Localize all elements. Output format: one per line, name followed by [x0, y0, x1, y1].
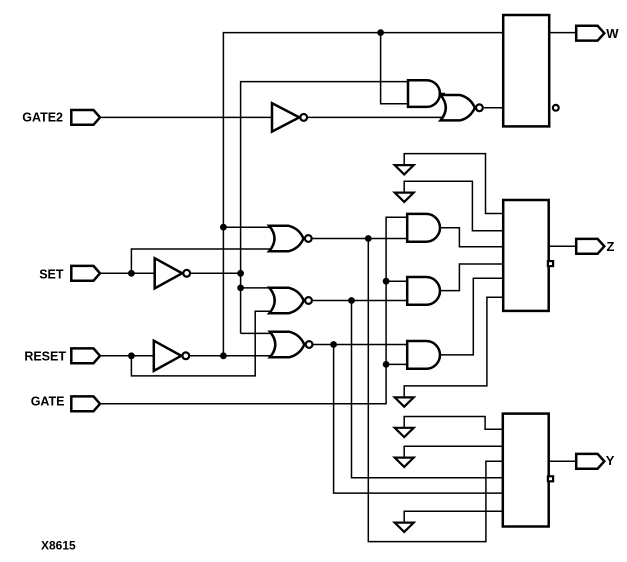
wire: AND-W output to NOR-W	[440, 93, 445, 95]
wire: GATE input run and vertical to AND-Z1 input 1	[100, 217, 409, 404]
wire: NOR3 upper input from vertical B	[241, 332, 272, 334]
bubble of U-SET	[183, 270, 190, 277]
nor gate NOR2	[269, 288, 303, 313]
polarity square on latch Y	[548, 476, 553, 481]
junction RESET_inv at vertical A	[220, 352, 227, 359]
wire: latch W output to pin W	[550, 32, 578, 34]
input pin GATE	[71, 396, 100, 411]
ground triangle T3	[395, 397, 414, 406]
polarity square on latch Z	[548, 261, 553, 266]
wire: latch Z input 6 to triangle T3 net	[404, 297, 503, 398]
and gate AND-Z2	[407, 277, 440, 305]
latch block Y	[503, 414, 549, 527]
bubble of NOR-W	[476, 104, 483, 111]
wire: RESET branch down and to NOR2 lower input	[131, 311, 272, 376]
junction on top wire	[377, 29, 384, 36]
junction SET_inv at vertical B	[237, 270, 244, 277]
inverter U-RESET	[154, 341, 181, 371]
wire: NOR1 upper input branch from vertical A	[223, 226, 271, 228]
junction SET branch	[128, 270, 135, 277]
svg-text:SET: SET	[39, 267, 64, 281]
ground triangle T2	[395, 193, 414, 202]
junction GATE to AND-Z3	[383, 361, 390, 368]
inverter U-GATE2	[272, 103, 299, 131]
wire: NOR2 output to AND-Z2 input 2	[312, 300, 409, 302]
wire: RESET input to inverter	[100, 355, 155, 357]
wire: top wire branch down to AND-W input 2	[381, 33, 409, 104]
and gate AND-W	[408, 80, 440, 107]
input pin RESET	[71, 348, 100, 363]
wire: SET branch up to NOR1 lower input	[131, 249, 271, 273]
bubble of U-GATE2	[300, 114, 307, 121]
ground triangle T5	[395, 458, 414, 467]
svg-text:W: W	[606, 26, 619, 41]
svg-text:GATE: GATE	[31, 395, 65, 409]
wire: AND-Z3 output to latch Z input 5	[440, 278, 504, 355]
wire: NOR1 output to AND-Z1 input 2	[312, 238, 409, 240]
junction GATE to AND-Z2	[383, 278, 390, 285]
ground triangle T6	[395, 523, 414, 532]
wire: triangle T4 net to latch Y input 1	[404, 417, 503, 430]
input pin SET	[71, 266, 100, 281]
wire: latch Z output to pin Z	[549, 245, 577, 247]
wire: NOR3 output to AND-Z3 input 1	[312, 344, 409, 346]
wire: GATE2 input to inverter	[100, 116, 273, 118]
bubble of NOR3	[306, 341, 313, 348]
nor gate NOR-W	[441, 95, 475, 120]
svg-text:Y: Y	[606, 453, 615, 468]
bubble of NOR1	[305, 235, 312, 242]
latch block W	[503, 15, 549, 126]
wire: AND-Z1 output to latch Z input 3	[440, 228, 504, 247]
nor gate NOR1	[269, 226, 303, 251]
inverter U-SET	[155, 258, 182, 288]
output pin Z	[576, 239, 604, 254]
output pin Y	[576, 454, 604, 469]
wire: GATE branch to AND-Z2 input 1	[386, 280, 409, 282]
wire: GATE branch to AND-Z3 input 2	[386, 363, 409, 365]
latch block Z	[503, 200, 549, 311]
svg-text:Z: Z	[607, 239, 615, 254]
wire: RESET_inv output to NOR3 lower input	[190, 355, 272, 357]
wire: triangle T5 net to latch Y input 2	[404, 446, 503, 458]
wire: latch Y output to pin Y	[549, 460, 577, 462]
svg-text:GATE2: GATE2	[22, 111, 63, 125]
junction NOR2 output	[348, 297, 355, 304]
junction NOR1 output	[365, 235, 372, 242]
wire: AND-Z2 output to latch Z input 4	[440, 264, 504, 291]
wire: SET_inv vertical B up to AND-W input 1	[241, 82, 409, 334]
wire: NOR-W output bubble to latch W	[484, 107, 504, 109]
svg-text:RESET: RESET	[24, 349, 66, 363]
wire: NOR2 upper input branch from vertical B	[241, 287, 272, 289]
wire: triangle T6 net to latch Y input 6	[404, 511, 503, 523]
bubble of U-RESET	[182, 352, 189, 359]
wire: GATE2_inv output to NOR-W input 2	[303, 116, 448, 118]
wire: NOR2 output down to latch Y input 4	[352, 301, 504, 478]
and gate AND-Z1	[407, 214, 440, 242]
wire: triangle T1 net to latch Z input 1	[404, 154, 503, 214]
output pin W	[576, 26, 604, 41]
nor gate NOR3	[270, 332, 304, 357]
wire: SET input to inverter	[100, 272, 156, 274]
and gate AND-Z3	[407, 341, 440, 369]
wire: NOR1 output down around to latch Y input 3	[368, 239, 503, 542]
bubble of NOR2	[305, 297, 312, 304]
wire: RESET_inv vertical A up to top wire into latch W	[223, 33, 503, 356]
ground triangle T1	[395, 165, 414, 174]
svg-text:X8615: X8615	[41, 539, 76, 553]
junction RESET_inv to NOR1	[220, 224, 227, 231]
wire: NOR3 output down to latch Y input 5	[334, 345, 504, 494]
wire: triangle T2 net to latch Z input 2	[404, 181, 503, 230]
junction SET_inv to NOR2	[237, 285, 244, 292]
junction RESET branch	[128, 352, 135, 359]
bubble on latch W right side	[553, 105, 559, 111]
input pin GATE2	[71, 110, 100, 125]
junction NOR3 output	[330, 341, 337, 348]
ground triangle T4	[395, 428, 414, 437]
wire: SET_inv output to vertical B	[191, 272, 241, 274]
